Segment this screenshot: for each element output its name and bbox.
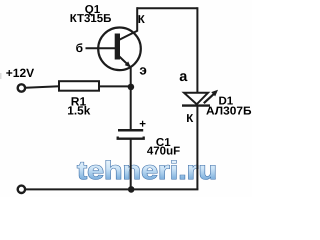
LED D1 triangle (184, 93, 208, 105)
svg-text:+: + (139, 119, 146, 131)
LED D1 emission arrow (204, 90, 218, 103)
svg-text:К: К (186, 113, 194, 125)
wire: LED anode vertical (196, 7, 198, 92)
capacitor C1 bottom plate (118, 137, 144, 139)
terminal bottom (18, 186, 25, 193)
transistor Q1 emitter stroke with arrow (119, 56, 131, 68)
svg-text:1.5k: 1.5k (67, 103, 90, 117)
wire: collector vertical (136, 7, 138, 31)
wire: R1 to emitter junction (99, 85, 131, 87)
wire: emitter vertical to capacitor (130, 67, 132, 131)
wire: capacitor to bottom bus (130, 139, 132, 190)
transistor Q1 base bar (115, 34, 120, 60)
svg-text:б: б (76, 41, 83, 55)
svg-text:+12V: +12V (6, 66, 34, 80)
LED D1 cathode bar (182, 104, 210, 106)
svg-text:tehneri.ru: tehneri.ru (77, 157, 217, 185)
scan artifact left edge (0, 73, 2, 79)
wire: LED cathode vertical down to bottom bus (196, 106, 198, 190)
capacitor C1 top plate (118, 129, 143, 132)
svg-text:АЛ307Б: АЛ307Б (206, 106, 252, 118)
wire: base lead (86, 47, 116, 49)
terminal +12V (18, 84, 25, 91)
transistor Q1 body (98, 28, 141, 71)
node: junction bottom bus / capacitor branch (128, 186, 135, 193)
node: junction emitter / R1 (128, 84, 135, 91)
resistor R1 (59, 81, 99, 91)
wire: top bus from collector to LED branch (137, 7, 197, 9)
svg-text:К: К (138, 14, 146, 26)
transistor Q1 collector stroke (119, 31, 138, 40)
svg-text:470uF: 470uF (147, 145, 180, 157)
wire: bottom bus (26, 188, 199, 190)
svg-text:a: a (179, 69, 188, 85)
wire: +12V terminal to R1 (26, 86, 60, 88)
svg-text:КТ315Б: КТ315Б (70, 13, 112, 25)
svg-text:э: э (139, 63, 146, 78)
